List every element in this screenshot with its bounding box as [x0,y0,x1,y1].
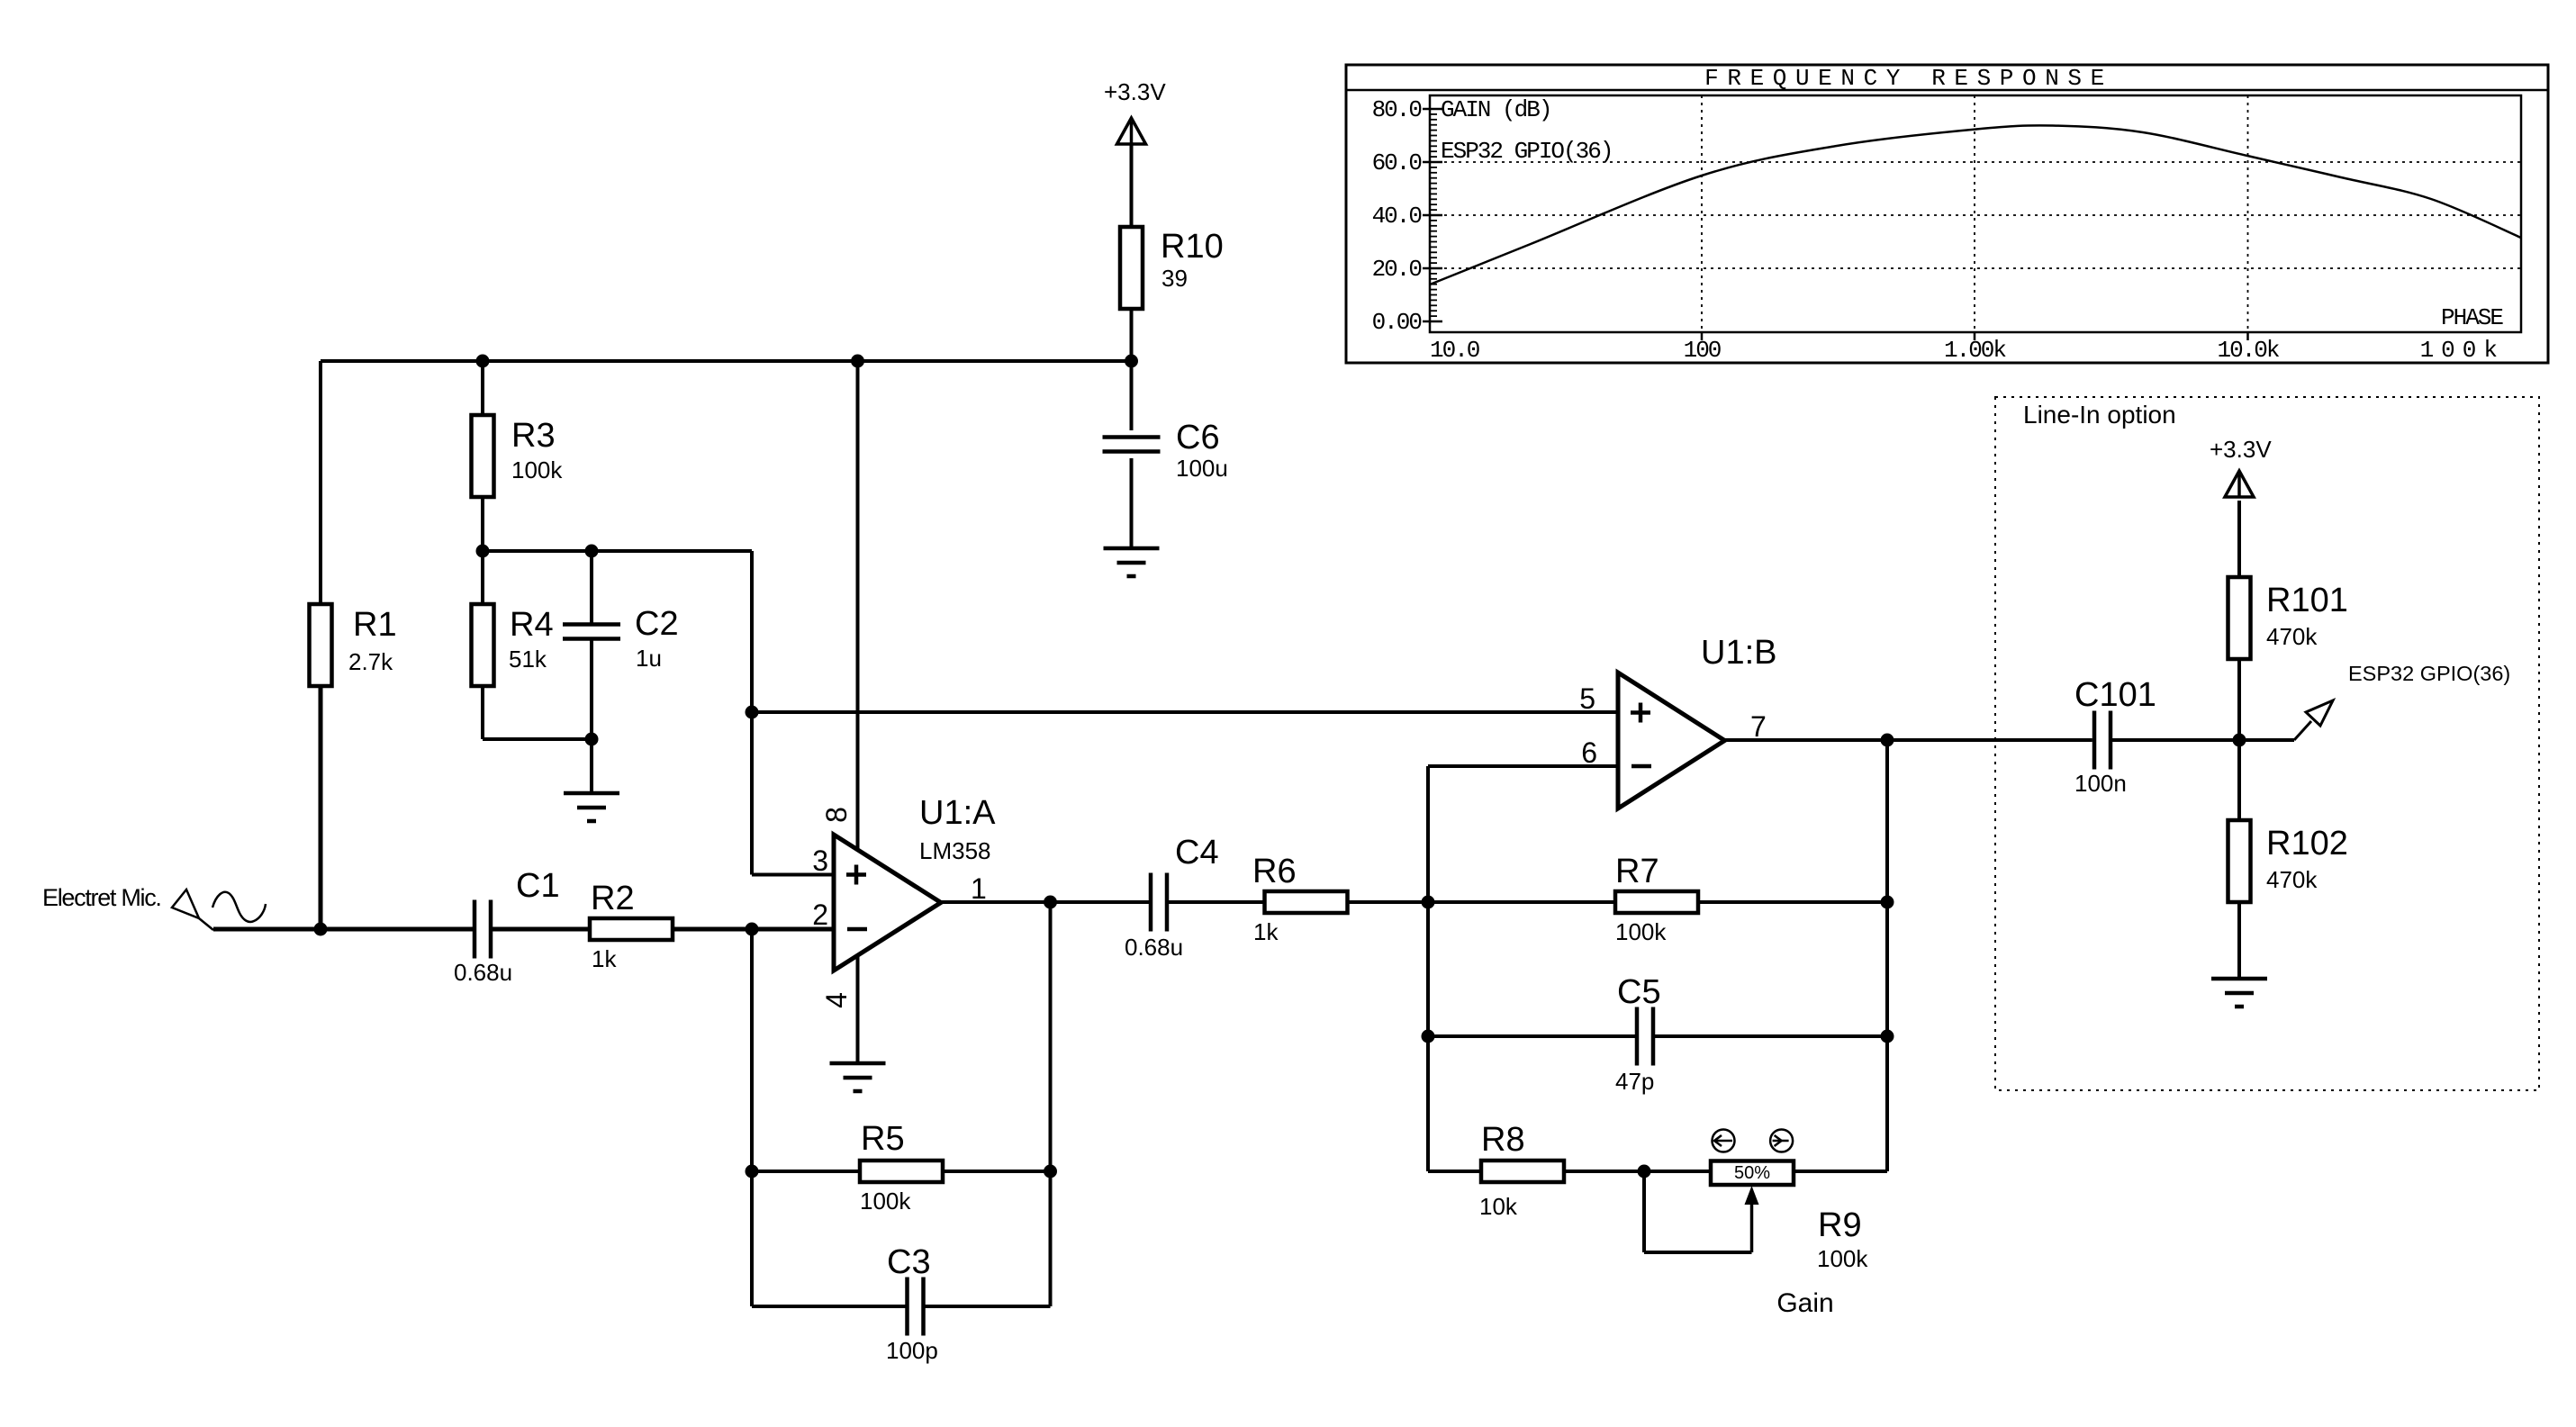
svg-text:100p: 100p [886,1337,938,1364]
svg-text:60.0: 60.0 [1372,149,1422,176]
svg-text:100: 100 [1684,337,1721,364]
svg-text:6: 6 [1581,736,1597,769]
svg-text:3: 3 [812,844,828,877]
svg-text:10.0: 10.0 [1430,337,1479,364]
svg-text:20.0: 20.0 [1372,256,1422,283]
svg-text:100k: 100k [2420,337,2505,364]
svg-text:100k: 100k [1817,1245,1868,1272]
svg-text:10k: 10k [1479,1193,1518,1220]
svg-text:1.00k: 1.00k [1944,337,2006,364]
svg-text:R10: R10 [1161,228,1224,266]
svg-text:R7: R7 [1615,853,1659,890]
svg-text:U1:B: U1:B [1701,634,1776,672]
svg-text:ESP32 GPIO(36): ESP32 GPIO(36) [2348,662,2510,685]
svg-text:R5: R5 [861,1120,905,1158]
svg-text:R101: R101 [2266,582,2348,619]
svg-text:50%: 50% [1734,1163,1770,1183]
svg-text:R2: R2 [591,880,635,917]
svg-text:10.0k: 10.0k [2217,337,2279,364]
svg-text:100n: 100n [2074,770,2127,797]
svg-text:47p: 47p [1615,1068,1654,1095]
svg-text:C4: C4 [1175,834,1219,872]
svg-text:R4: R4 [510,606,554,644]
svg-text:470k: 470k [2266,866,2318,893]
svg-text:PHASE: PHASE [2441,304,2503,331]
svg-text:0.00: 0.00 [1372,309,1422,336]
svg-text:C3: C3 [887,1243,931,1281]
svg-text:0.68u: 0.68u [454,959,512,986]
svg-text:Gain: Gain [1776,1288,1833,1318]
svg-text:100u: 100u [1176,455,1228,482]
svg-text:U1:A: U1:A [919,794,996,832]
svg-text:C101: C101 [2074,676,2156,714]
svg-text:1u: 1u [636,645,662,672]
svg-text:FREQUENCY RESPONSE: FREQUENCY RESPONSE [1704,65,2113,92]
svg-text:4: 4 [820,992,853,1008]
svg-text:R8: R8 [1481,1121,1525,1159]
svg-text:8: 8 [820,807,853,823]
svg-text:R102: R102 [2266,825,2348,863]
svg-text:5: 5 [1579,682,1595,715]
svg-text:470k: 470k [2266,623,2318,650]
svg-text:ESP32 GPIO(36): ESP32 GPIO(36) [1441,138,1612,165]
svg-text:R3: R3 [511,417,556,455]
svg-text:R9: R9 [1818,1206,1862,1244]
svg-text:R6: R6 [1252,853,1297,890]
svg-text:R1: R1 [353,606,397,644]
svg-text:40.0: 40.0 [1372,203,1422,230]
svg-text:2: 2 [812,899,828,931]
svg-text:C6: C6 [1176,419,1220,456]
svg-text:39: 39 [1161,265,1188,292]
svg-text:2.7k: 2.7k [348,648,393,675]
svg-text:1k: 1k [592,945,617,972]
svg-text:51k: 51k [509,646,547,673]
svg-text:Line-In option: Line-In option [2023,401,2176,429]
svg-text:100k: 100k [860,1188,911,1215]
svg-text:7: 7 [1750,710,1767,743]
svg-text:GAIN (dB): GAIN (dB) [1441,96,1550,123]
svg-text:+3.3V: +3.3V [2210,436,2272,463]
svg-text:C5: C5 [1617,973,1661,1011]
svg-text:LM358: LM358 [919,837,991,864]
svg-text:+3.3V: +3.3V [1104,78,1166,105]
svg-text:C1: C1 [516,867,560,905]
svg-text:80.0: 80.0 [1372,96,1422,123]
svg-text:Electret Mic.: Electret Mic. [42,884,161,911]
svg-text:0.68u: 0.68u [1125,934,1183,961]
svg-text:1: 1 [971,872,987,905]
svg-text:100k: 100k [1615,918,1667,945]
svg-text:1k: 1k [1253,918,1279,945]
svg-text:C2: C2 [635,605,679,643]
svg-text:100k: 100k [511,456,563,483]
